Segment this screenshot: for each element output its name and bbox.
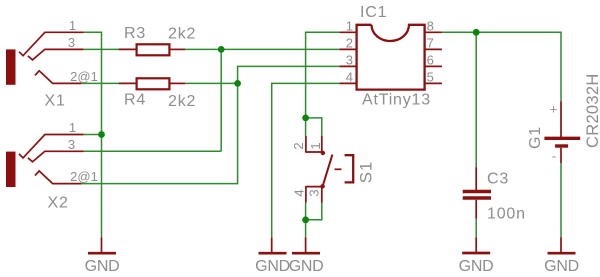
ground GND4 stub: [475, 237, 477, 252]
svg-text:6: 6: [427, 52, 434, 67]
svg-text:AtTiny13: AtTiny13: [362, 92, 431, 109]
svg-text:3: 3: [68, 35, 75, 50]
switch S1 dashed link: [335, 168, 342, 170]
resistor R3 lead left: [119, 48, 136, 50]
ground GND3 bar: [292, 252, 320, 255]
wire node A branch down to X2 pin3: [220, 49, 222, 151]
svg-text:GND: GND: [289, 258, 324, 275]
svg-text:2@1: 2@1: [70, 169, 98, 184]
wire battery to GND5: [560, 163, 562, 237]
junction switch top node: [302, 115, 309, 122]
wire node C down to C3: [475, 32, 477, 167]
connector X2 pin 2 contact: [35, 171, 82, 184]
resistor R3 body: [137, 44, 170, 55]
svg-text:1: 1: [69, 18, 76, 33]
wire C3 to GND4: [475, 219, 477, 238]
resistor R4 lead left: [119, 82, 136, 84]
resistor R4 body: [137, 78, 170, 89]
svg-text:+: +: [550, 102, 558, 117]
capacitor C3 lead bottom: [475, 200, 477, 219]
capacitor C3 top plate: [463, 190, 491, 194]
switch S1 actuator bracket: [345, 155, 354, 182]
svg-text:1: 1: [69, 120, 76, 135]
switch S1 pin 2 stub: [305, 136, 307, 152]
IC1 pin 1 stub: [339, 31, 356, 33]
connector X1 pin 2 contact: [35, 71, 82, 84]
battery G1 negative plate: [555, 144, 568, 147]
wire X1 pin2 to R4: [81, 82, 118, 84]
svg-text:4: 4: [346, 69, 353, 84]
svg-text:GND: GND: [255, 258, 290, 275]
connector X2 pin 3 contact: [28, 151, 84, 162]
ground GND4 bar: [462, 252, 490, 255]
junction node C (VCC/C3): [473, 29, 480, 36]
capacitor C3 bottom plate: [463, 196, 491, 200]
ground GND3 stub: [305, 237, 307, 252]
wire IC pin8 to battery: [442, 32, 561, 101]
svg-text:100n: 100n: [487, 206, 526, 223]
svg-text:GND: GND: [544, 258, 579, 275]
wires group: [81, 32, 561, 237]
resistor R3 lead right: [171, 48, 186, 50]
switch S1 pin 4 stub: [305, 187, 307, 203]
junction X2 pin1 node: [98, 131, 105, 138]
svg-text:2: 2: [291, 142, 306, 149]
svg-text:8: 8: [427, 18, 434, 33]
IC1 pin 5 stub: [425, 82, 442, 84]
junction node B (R4 output): [234, 80, 241, 87]
capacitor C3 lead top: [475, 167, 477, 190]
svg-text:2@1: 2@1: [70, 69, 98, 84]
svg-text:4: 4: [291, 189, 306, 196]
battery G1 lead bottom: [560, 148, 562, 164]
svg-text:2k2: 2k2: [168, 26, 196, 43]
switch S1 bottom contact bar: [305, 186, 323, 188]
switch S1 pin 3 stub: [321, 187, 323, 203]
wire IC pin1 to switch node: [306, 32, 340, 118]
battery G1 positive plate: [544, 137, 580, 140]
connector X1 pin 1 contact: [19, 32, 84, 55]
switch S1 bottom contact dot: [320, 184, 324, 188]
wire S1 pin3 to bottom node: [306, 203, 322, 220]
IC1 pin 7 stub: [425, 48, 442, 50]
wire bottom node to GND3: [305, 220, 307, 238]
ground GND2 stub: [271, 237, 273, 252]
svg-text:2k2: 2k2: [168, 93, 196, 110]
svg-text:2: 2: [346, 35, 353, 50]
junction switch bottom node: [302, 216, 309, 223]
resistor R4 lead right: [171, 82, 186, 84]
wire IC pin4 to GND2: [272, 83, 340, 237]
connector X1 pin 3 contact: [28, 49, 84, 60]
svg-text:1: 1: [346, 18, 353, 33]
IC1 pin 6 stub: [425, 65, 442, 67]
svg-text:7: 7: [427, 35, 434, 50]
svg-text:3: 3: [346, 52, 353, 67]
wire S1 pin4 to bottom node: [305, 203, 307, 220]
svg-text:GND: GND: [459, 258, 494, 275]
switch S1 lever: [323, 155, 333, 187]
wire X2 pin1 to junction: [84, 134, 102, 136]
wire switch node to S1 pin2: [305, 118, 307, 136]
wire node B down to X2 pin2: [81, 83, 237, 183]
svg-text:C3: C3: [487, 171, 509, 188]
IC1 pin 2 stub: [339, 48, 356, 50]
wire R3 to IC pin2: [185, 48, 339, 50]
svg-text:1: 1: [308, 142, 323, 149]
switch S1 top contact dot: [321, 151, 325, 155]
IC1 pin 4 stub: [339, 82, 356, 84]
op IC1 body outline with notch: [357, 25, 425, 90]
battery G1 lead top: [560, 102, 562, 138]
junction node A (R3 output): [218, 46, 225, 53]
svg-text:5: 5: [427, 69, 434, 84]
wire X2 pin3: [84, 150, 222, 152]
wire junction to GND1: [101, 135, 103, 238]
svg-text:S1: S1: [357, 161, 376, 183]
svg-text:X2: X2: [48, 195, 69, 212]
svg-text:CR2032H: CR2032H: [584, 73, 600, 148]
ground GND2 bar: [259, 252, 287, 255]
wire X1 pin1 to X2 pin1 column: [84, 32, 102, 134]
IC1 pin 3 stub: [339, 65, 356, 67]
wire switch node to S1 pin1: [306, 118, 322, 136]
switch S1 pin 1 stub: [321, 136, 323, 152]
svg-text:-: -: [552, 149, 556, 164]
ground GND1 stub: [101, 237, 103, 252]
ground GND5 bar: [548, 252, 576, 255]
ground GND1 bar: [88, 252, 116, 255]
connector X2 pin 1 contact: [19, 135, 84, 158]
connector X1 body: [6, 49, 16, 84]
ground GND5 stub: [560, 237, 562, 252]
wire X1 pin3 to R3: [84, 48, 119, 50]
svg-text:IC1: IC1: [360, 4, 387, 21]
svg-text:3: 3: [68, 137, 75, 152]
wire node B up to IC pin3: [238, 66, 340, 83]
svg-text:R4: R4: [124, 92, 146, 109]
connector X2 body: [6, 152, 16, 187]
switch S1 top contact bar: [305, 151, 323, 153]
svg-text:R3: R3: [124, 25, 146, 42]
wire R4 to node B: [185, 82, 237, 84]
svg-text:GND: GND: [85, 258, 120, 275]
svg-text:3: 3: [306, 189, 321, 196]
IC1 pin 8 stub: [425, 31, 442, 33]
svg-text:G1: G1: [527, 126, 544, 149]
svg-text:X1: X1: [45, 93, 66, 110]
